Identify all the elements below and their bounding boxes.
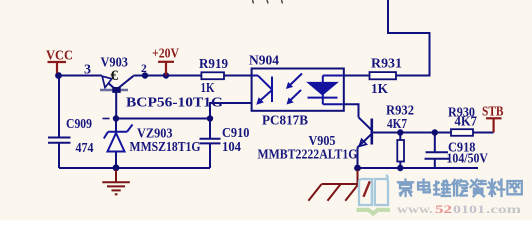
svg-text:C909: C909 [66,117,92,132]
svg-text:0101: 0101 [453,204,485,216]
svg-text:R931: R931 [371,57,402,72]
svg-text:.com: .com [486,204,522,216]
svg-text:104: 104 [222,140,241,155]
svg-text:BCP56-10T1G: BCP56-10T1G [126,96,223,111]
svg-text:2: 2 [141,63,147,75]
svg-text:MMBT2222ALT1G: MMBT2222ALT1G [258,148,358,163]
svg-text:3: 3 [84,63,91,78]
svg-text:1K: 1K [201,81,215,96]
svg-text:www.: www. [397,204,433,216]
svg-text:MMSZ18T1G: MMSZ18T1G [130,140,201,155]
svg-text:4K7: 4K7 [387,117,407,132]
svg-text:VCC: VCC [46,49,73,64]
svg-text:C910: C910 [222,126,250,141]
svg-text:1K: 1K [371,82,388,97]
svg-text:STB: STB [482,104,504,119]
svg-text:+20V: +20V [152,47,179,62]
svg-text:474: 474 [76,141,94,156]
svg-text:104/50V: 104/50V [447,152,489,167]
svg-text:4K7: 4K7 [455,115,478,130]
svg-text:R919: R919 [199,57,228,72]
svg-text:PC817B: PC817B [262,114,308,129]
svg-text:52: 52 [435,204,452,216]
svg-text:€: € [111,68,119,84]
svg-text:N904: N904 [249,54,279,69]
